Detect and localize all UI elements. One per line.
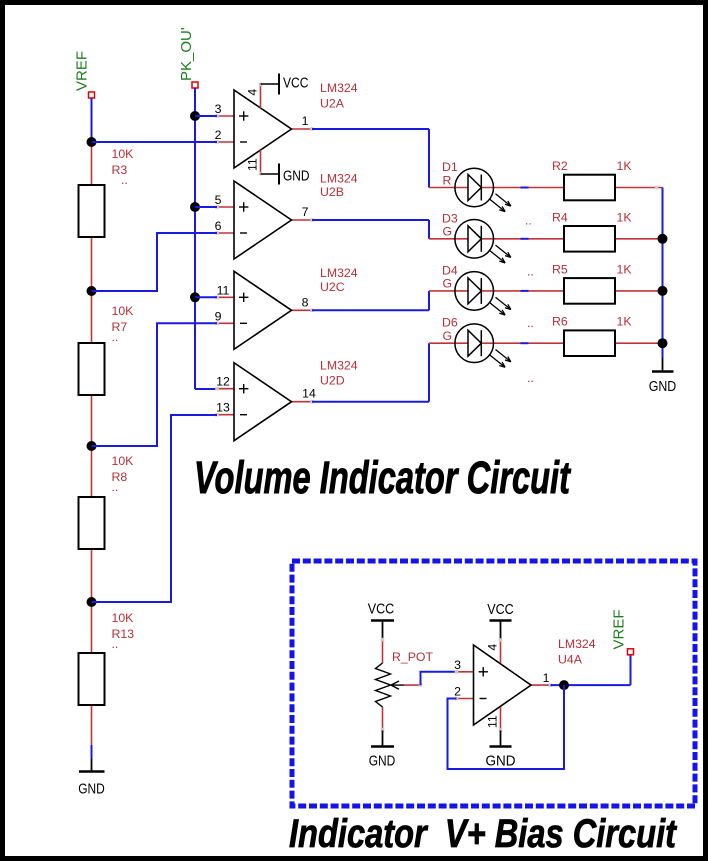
svg-text:VREF: VREF [611, 609, 628, 649]
svg-text:GND: GND [649, 379, 677, 395]
svg-text:14: 14 [302, 387, 316, 401]
svg-text:12: 12 [216, 375, 230, 389]
svg-text:10K: 10K [112, 611, 135, 625]
svg-text:1K: 1K [617, 262, 633, 276]
svg-text:VREF: VREF [74, 51, 91, 91]
svg-text:..: .. [527, 371, 534, 385]
svg-text:1: 1 [543, 671, 550, 685]
svg-text:3: 3 [454, 658, 461, 672]
svg-text:U2D: U2D [320, 374, 345, 388]
svg-text:10K: 10K [112, 454, 135, 468]
svg-text:R2: R2 [552, 159, 568, 173]
svg-text:R4: R4 [552, 210, 568, 224]
svg-text:2: 2 [454, 684, 461, 698]
svg-text:7: 7 [302, 205, 309, 219]
svg-text:11: 11 [217, 283, 230, 297]
svg-text:13: 13 [216, 401, 230, 415]
svg-text:G: G [443, 225, 453, 239]
svg-text:4: 4 [246, 89, 260, 96]
svg-text:G: G [443, 277, 453, 291]
svg-text:1K: 1K [617, 159, 633, 173]
svg-text:D1: D1 [442, 160, 458, 174]
svg-text:U2B: U2B [320, 185, 344, 199]
svg-text:VCC: VCC [368, 601, 395, 617]
svg-text:6: 6 [215, 219, 222, 233]
svg-text:Indicator V+ Bias Circuit: Indicator V+ Bias Circuit [289, 812, 677, 856]
svg-text:GND: GND [486, 754, 516, 770]
svg-text:GND: GND [283, 168, 310, 184]
svg-text:D6: D6 [442, 316, 458, 330]
svg-text:11: 11 [486, 715, 500, 728]
svg-text:3: 3 [215, 102, 222, 116]
svg-text:G: G [443, 329, 453, 343]
svg-text:LM324: LM324 [320, 81, 358, 95]
svg-text:GND: GND [369, 754, 396, 770]
svg-text:R_POT: R_POT [392, 650, 433, 664]
svg-text:LM324: LM324 [320, 359, 358, 373]
svg-text:R6: R6 [552, 315, 568, 329]
svg-text:D4: D4 [442, 263, 458, 277]
svg-text:1: 1 [302, 114, 309, 128]
svg-text:R5: R5 [552, 262, 568, 276]
svg-text:8: 8 [302, 295, 309, 309]
svg-text:U2C: U2C [320, 280, 345, 294]
svg-text:LM324: LM324 [320, 266, 358, 280]
svg-text:10K: 10K [112, 304, 135, 318]
svg-text:9: 9 [215, 309, 222, 323]
svg-text:U2A: U2A [320, 96, 345, 110]
svg-text:1K: 1K [617, 315, 633, 329]
svg-text:11: 11 [246, 158, 260, 171]
svg-text:1K: 1K [617, 210, 633, 224]
svg-text:R: R [443, 173, 452, 187]
svg-text:10K: 10K [112, 147, 135, 161]
svg-text:..: .. [527, 316, 534, 330]
svg-text:D3: D3 [442, 211, 458, 225]
svg-text:..: .. [121, 173, 128, 187]
svg-text:GND: GND [78, 782, 105, 798]
svg-text:VCC: VCC [283, 75, 309, 91]
svg-text:..: .. [527, 265, 534, 279]
svg-text:LM324: LM324 [558, 637, 596, 651]
svg-text:5: 5 [215, 193, 222, 207]
svg-text:VCC: VCC [487, 602, 514, 618]
svg-text:Volume Indicator Circuit: Volume Indicator Circuit [194, 452, 571, 503]
svg-text:..: .. [112, 637, 119, 651]
svg-text:LM324: LM324 [320, 172, 358, 186]
svg-text:PK_OU': PK_OU' [178, 27, 195, 81]
svg-text:..: .. [112, 480, 119, 494]
svg-text:4: 4 [486, 644, 500, 651]
svg-text:U4A: U4A [558, 652, 583, 666]
svg-text:2: 2 [215, 128, 222, 142]
svg-text:..: .. [525, 214, 532, 228]
svg-text:..: .. [112, 330, 119, 344]
